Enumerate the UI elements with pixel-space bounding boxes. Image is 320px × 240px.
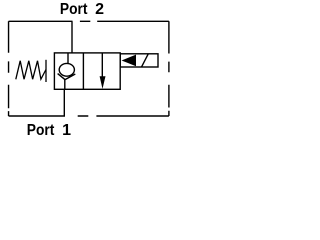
svg-text:2: 2 [95, 1, 104, 18]
node Port 1 label [27, 122, 71, 139]
wire: port 1 connection line [63, 89, 65, 116]
wire: port 2 connection line [71, 21, 73, 53]
node Port 2 label [60, 1, 104, 18]
solenoid actuator U1 (box with slash) [120, 54, 158, 67]
valve position divider [82, 53, 84, 89]
svg-text:1: 1 [62, 122, 71, 139]
cartridge envelope (dashed boundary) [9, 21, 169, 116]
flow arrow (energized position, flow 2-to-1) [100, 53, 106, 89]
svg-text:Port: Port [27, 122, 55, 139]
svg-text:Port: Port [60, 1, 88, 18]
spring (return spring, left side) [16, 60, 46, 82]
solenoid armature (filled triangle) [122, 55, 137, 67]
check valve (ball on seat, de-energized position) [58, 53, 76, 89]
valve body (2-position envelope) [54, 53, 120, 89]
